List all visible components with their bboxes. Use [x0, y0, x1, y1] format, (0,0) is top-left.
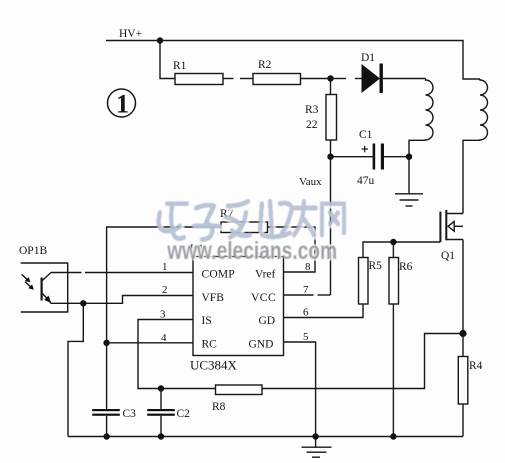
svg-text:Vaux: Vaux	[299, 176, 322, 188]
ground (main)	[302, 437, 332, 458]
node GND pin on rail	[312, 433, 318, 439]
svg-text:47u: 47u	[357, 175, 375, 187]
node emitter junction	[80, 300, 86, 306]
wire RC pin 4 stub	[107, 342, 193, 344]
node R6 on rail	[390, 433, 396, 439]
svg-text:Q1: Q1	[441, 250, 455, 262]
svg-text:C3: C3	[123, 408, 137, 420]
resistor R6	[389, 242, 413, 304]
svg-text:7: 7	[303, 284, 309, 296]
wire ground rail bottom	[68, 436, 463, 438]
svg-text:6: 6	[303, 307, 309, 319]
svg-text:R8: R8	[212, 401, 226, 413]
node C2 top	[158, 385, 164, 391]
svg-text:5: 5	[303, 331, 309, 343]
wire to ground (aux)	[408, 157, 410, 194]
resistor R7	[220, 208, 268, 233]
resistor R5	[359, 258, 383, 305]
svg-text:R1: R1	[173, 60, 187, 72]
resistor R4	[458, 334, 482, 437]
svg-text:R3: R3	[305, 104, 319, 116]
svg-text:GD: GD	[259, 315, 276, 327]
capacitor C3	[92, 408, 136, 437]
wire Vaux to VCC pin 7	[284, 157, 331, 295]
svg-text:C2: C2	[177, 408, 191, 420]
svg-text:VFB: VFB	[202, 292, 225, 304]
wire opto emitter to VFB pin 2	[50, 296, 193, 304]
watermark	[159, 201, 346, 266]
svg-text:2: 2	[162, 284, 168, 296]
svg-text:3: 3	[160, 309, 166, 321]
svg-text:R5: R5	[369, 260, 383, 272]
svg-text:UC384X: UC384X	[190, 358, 238, 373]
svg-text:1: 1	[116, 90, 129, 119]
wire top rail HV+	[106, 41, 480, 80]
svg-text:R2: R2	[258, 59, 272, 71]
wire R5 top to gate rail	[363, 242, 440, 258]
wire node to D1 anode	[331, 78, 362, 80]
svg-text:4: 4	[161, 332, 167, 344]
node RC junction	[103, 340, 109, 346]
svg-text:C1: C1	[359, 129, 373, 141]
node C2 on rail	[158, 433, 164, 439]
svg-text:22: 22	[306, 119, 318, 131]
wire R1 to R2	[223, 78, 253, 80]
diode D1	[361, 52, 383, 93]
node Vaux	[327, 154, 333, 160]
node C3 on rail	[103, 433, 109, 439]
wire R7 to RC/C3 rail	[107, 227, 221, 409]
svg-text:www.elecians.com: www.elecians.com	[166, 237, 337, 265]
node junction HV+ rail	[157, 37, 163, 43]
transformer auxiliary winding	[426, 79, 434, 141]
wire primary bottom to drain	[463, 140, 480, 213]
capacitor C2	[147, 389, 190, 437]
wire IS pin 3 to sense line	[138, 320, 216, 389]
wire Q1 source down	[462, 240, 464, 334]
wire R2 to node	[301, 78, 331, 80]
svg-text:GND: GND	[249, 339, 274, 351]
IC U1 UC384X	[190, 243, 284, 373]
wire D1 cathode to aux winding	[383, 78, 426, 80]
capacitor C1	[331, 129, 410, 187]
svg-text:D1: D1	[361, 52, 375, 64]
transistor Q1 MOSFET	[440, 210, 463, 262]
wire GND pin 5 to rail	[284, 342, 316, 437]
optocoupler OP1B	[19, 245, 68, 312]
resistor R1	[173, 60, 223, 85]
node source/R4 junction	[459, 330, 466, 337]
node gate junction	[390, 239, 396, 245]
resistor R2	[253, 59, 301, 85]
schematic figure marker 1	[108, 89, 136, 119]
svg-text:R6: R6	[399, 261, 413, 273]
svg-text:HV+: HV+	[119, 28, 142, 40]
wire Vref pin 8 to R7	[268, 227, 316, 272]
svg-text:Vref: Vref	[255, 269, 276, 281]
wire R6 bottom to rail	[392, 304, 394, 437]
svg-text:OP1B: OP1B	[19, 245, 47, 257]
wire R8 to current sense node	[262, 334, 463, 389]
svg-text:R4: R4	[469, 360, 483, 372]
svg-text:COMP: COMP	[202, 269, 235, 281]
resistor R3	[305, 79, 337, 157]
wire aux winding bottom	[409, 140, 426, 156]
transformer primary winding	[480, 79, 488, 140]
wire GD pin 6 to R5	[284, 304, 364, 318]
node C1 right / winding return	[406, 154, 412, 160]
svg-text:VCC: VCC	[251, 292, 276, 304]
node R2/R3/D1	[327, 75, 333, 81]
ground (aux return)	[395, 194, 423, 206]
svg-text:IS: IS	[202, 315, 212, 327]
resistor R8	[212, 385, 262, 413]
svg-text:RC: RC	[202, 339, 218, 351]
wire emitter to ground rail	[68, 303, 83, 436]
wire drop from HV+ to R1	[160, 41, 175, 79]
wire opto collector to COMP pin 1	[51, 272, 193, 274]
